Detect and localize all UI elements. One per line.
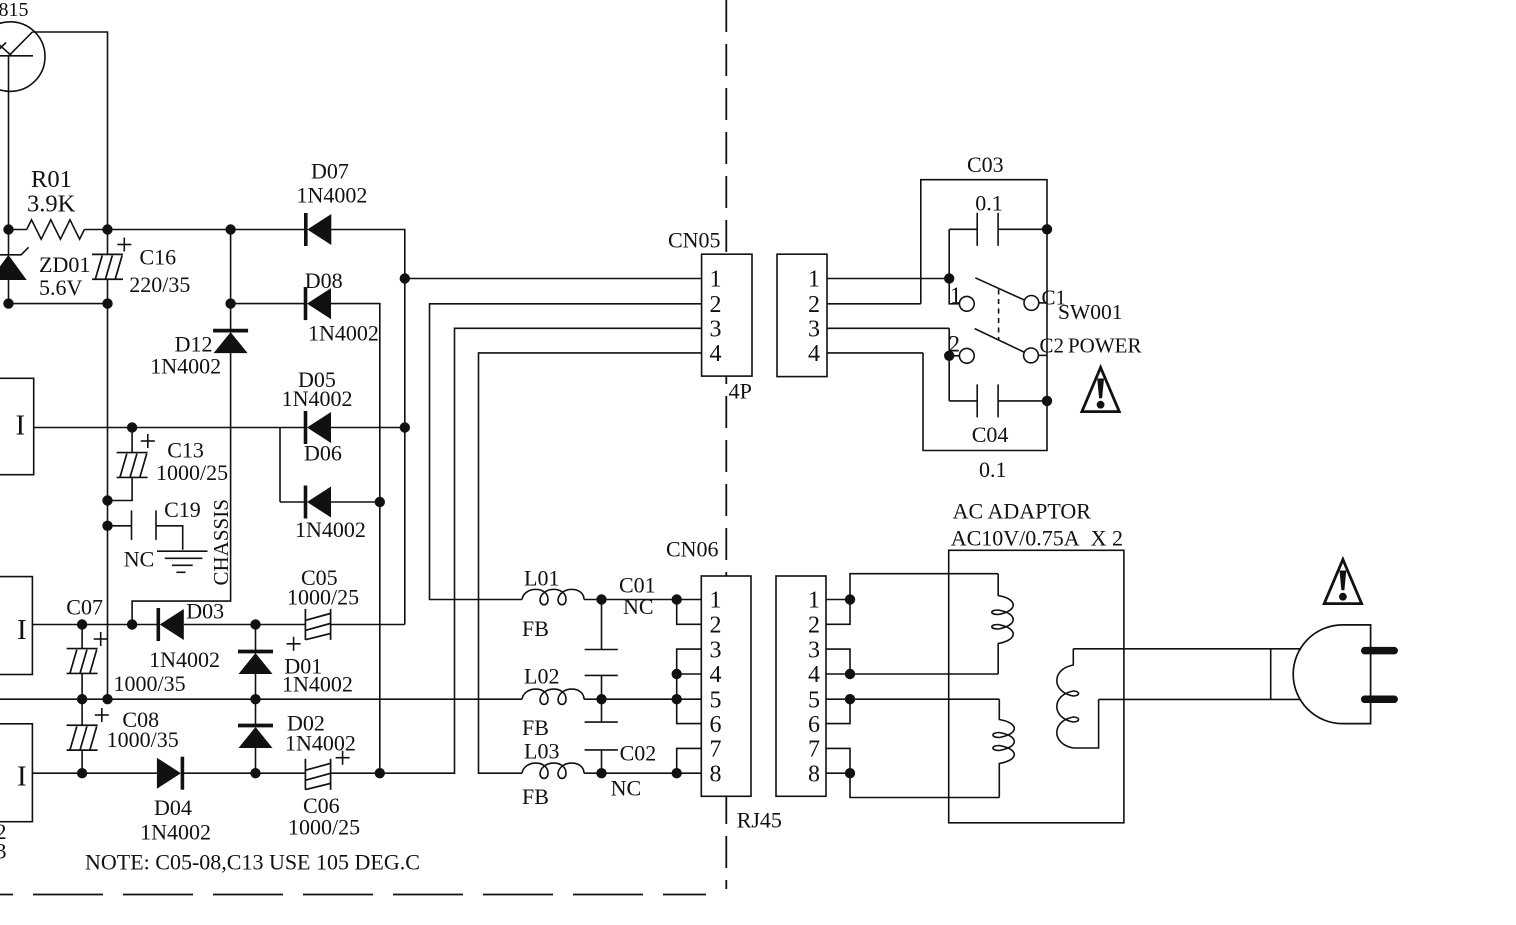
node J27 — [596, 768, 606, 778]
node J22 — [596, 594, 606, 604]
wire wire ZD01 to C16 bottom — [9, 303, 108, 305]
svg-text:3.9K: 3.9K — [27, 191, 76, 218]
svg-text:CN06: CN06 — [666, 537, 719, 562]
wire D06 left lead — [280, 501, 306, 503]
svg-text:1: 1 — [808, 588, 820, 614]
wire D01 bottom lead — [255, 674, 257, 699]
svg-text:1N4002: 1N4002 — [282, 672, 353, 697]
svg-text:5.6V: 5.6V — [39, 275, 83, 300]
wire switch assembly outline SW001 — [921, 180, 1047, 451]
wire C07 top lead — [81, 625, 83, 649]
switch SW001 contact C1 circle — [1024, 296, 1039, 311]
svg-text:I: I — [17, 614, 27, 646]
wire P2 pins1-2 jumper and riser to T1 primary — [826, 574, 998, 625]
wire C06 to node x=379.8 — [331, 772, 380, 774]
diode D01 1N4002 — [238, 652, 273, 675]
wire D08 row from node to corner x=379.8 — [231, 303, 306, 305]
node J2 — [102, 224, 112, 234]
diode D06 1N4002 — [306, 486, 332, 519]
wire D03 to C05 — [184, 624, 306, 626]
wire Q1 collector to C16 top — [32, 32, 107, 230]
wire CN06 pins7-8 jumper — [677, 748, 702, 773]
svg-text:R01: R01 — [31, 166, 72, 193]
connector P2 (mating RJ45) box — [776, 576, 826, 796]
wire D02 bottom lead — [255, 748, 257, 773]
wire C04 left lead — [949, 400, 977, 402]
node J1 — [3, 224, 13, 234]
capacitor C16 220/35 (polarized) — [92, 254, 123, 279]
diode D02 1N4002 — [238, 726, 273, 749]
node J7 — [400, 273, 410, 283]
wire C2 to frame stub — [1038, 354, 1047, 356]
svg-text:NC: NC — [611, 776, 642, 801]
node J21 — [375, 768, 385, 778]
svg-text:3: 3 — [808, 637, 820, 663]
wire D05 to node x=404.8 — [331, 427, 405, 429]
wire C19 left lead — [108, 525, 132, 527]
plus sign C06 — [336, 751, 350, 765]
svg-text:4: 4 — [808, 341, 820, 367]
svg-text:6: 6 — [808, 712, 820, 738]
wire D12 branch vertical from rail — [230, 230, 232, 331]
svg-text:1: 1 — [710, 267, 722, 293]
wire C03 left lead — [949, 228, 977, 230]
node J36 — [1042, 396, 1052, 406]
svg-text:2: 2 — [808, 292, 820, 318]
wire C07 bottom lead — [81, 673, 83, 699]
plus sign C16 — [117, 238, 131, 252]
svg-text:D06: D06 — [304, 441, 342, 466]
wire L03 out to CN06 pin8 — [584, 772, 701, 774]
node J26 — [672, 694, 682, 704]
wire switch pole2 input vertical — [948, 328, 950, 401]
svg-text:L02: L02 — [524, 664, 559, 689]
node J13 — [77, 619, 87, 629]
svg-text:C03: C03 — [967, 152, 1004, 177]
svg-text:C04: C04 — [972, 422, 1009, 447]
wire pole2 contact stub — [949, 355, 959, 357]
svg-text:NC: NC — [124, 547, 155, 572]
svg-text:1: 1 — [710, 588, 722, 614]
winding box III (bottom, cut off) — [0, 724, 32, 822]
switch SW001 pole 2 contact circle — [959, 348, 974, 363]
wire bottom rail from winding III to D04 — [32, 772, 156, 774]
wire plug connector P1 pin3 wire to switch — [827, 327, 949, 329]
svg-text:1N4002: 1N4002 — [285, 731, 356, 756]
inductor L03 FB — [522, 763, 584, 778]
node J23 — [672, 594, 682, 604]
transistor Q1 (2SC... 815, cut off at edge) — [0, 22, 45, 92]
svg-text:C16: C16 — [140, 245, 177, 270]
winding box I (top, cut off) — [0, 378, 34, 474]
wire CN05 pin1 wire — [405, 278, 702, 280]
wire plug connector P1 pin4 wire to switch frame — [827, 352, 923, 354]
node J35 — [1042, 224, 1052, 234]
wire CN05 pin3 wire down to bottom rail — [380, 328, 702, 773]
transformer T1 primary winding — [992, 574, 1013, 674]
node J20 — [250, 768, 260, 778]
node J31 — [845, 694, 855, 704]
wire D04 to C06 — [182, 772, 305, 774]
node J11 — [102, 521, 112, 531]
wire P2 pin4 wire to T1 primary bottom — [826, 673, 998, 675]
wire C03 right lead to frame — [998, 228, 1047, 230]
wire C1 to frame stub — [1039, 302, 1047, 304]
svg-text:1N4002: 1N4002 — [282, 386, 353, 411]
node J9 — [127, 422, 137, 432]
zener diode ZD01 5.6V — [0, 247, 29, 279]
wire D06 right lead to x=379.8 — [331, 501, 380, 503]
svg-text:4P: 4P — [729, 379, 752, 404]
AC plug prong bottom — [1365, 696, 1395, 704]
wire C04 right lead to frame — [998, 400, 1047, 402]
AC plug body — [1293, 625, 1370, 724]
node J10 — [102, 495, 112, 505]
node J29 — [845, 594, 855, 604]
wire C13 top lead — [131, 428, 133, 453]
svg-text:FB: FB — [522, 715, 549, 740]
wire C16 top lead — [107, 230, 109, 255]
wire CN05 pin4 wire down to L03 — [479, 353, 702, 773]
node J4 — [3, 298, 13, 308]
wire P2 pins5-6 jumper — [826, 699, 850, 723]
wire ZD01 top lead — [8, 230, 10, 255]
node J25 — [672, 669, 682, 679]
node J3 — [225, 224, 235, 234]
wire D12 down and over to D03 node — [132, 353, 231, 624]
switch SW001 pole 1 lever — [975, 278, 1024, 300]
connector CN05 4P box — [702, 254, 752, 376]
wire CN06 pins3-6 jumper — [677, 649, 702, 724]
svg-text:3: 3 — [710, 637, 722, 663]
switch SW001 pole 2 lever — [975, 329, 1024, 352]
wire mid rail y=699.2 — [0, 698, 522, 700]
svg-text:0.1: 0.1 — [975, 191, 1003, 216]
svg-text:4: 4 — [710, 662, 722, 688]
wire P2 pin1 stub — [826, 599, 850, 601]
wire CN06 pin4 stub — [677, 673, 702, 675]
wire row y=427.5 from winding I to D05 — [34, 427, 306, 429]
wire C02 top lead — [601, 699, 603, 722]
svg-text:C02: C02 — [620, 741, 657, 766]
svg-text:NC: NC — [623, 594, 654, 619]
capacitor C03 0.1 — [977, 213, 998, 246]
wire P2 pins7-8 jumper and drop to T2 primary bottom — [826, 748, 999, 797]
wire mid rail right of L02 — [584, 698, 701, 700]
node J33 — [944, 273, 954, 283]
node J8 — [400, 422, 410, 432]
svg-text:C2: C2 — [1040, 334, 1065, 358]
warning triangle near switch — [1082, 368, 1119, 412]
svg-text:1N4002: 1N4002 — [149, 647, 220, 672]
svg-text:1000/35: 1000/35 — [114, 671, 186, 696]
svg-text:1: 1 — [950, 283, 962, 308]
wire plug connector P1 pin1 wire to switch — [827, 278, 949, 280]
transformer T2 primary winding — [993, 699, 1014, 797]
svg-text:1N4002: 1N4002 — [297, 183, 368, 208]
svg-text:I: I — [17, 761, 27, 793]
switch SW001 pole 1 contact circle — [959, 296, 974, 311]
wire P2 pin8 stub — [826, 772, 850, 774]
svg-text:3: 3 — [0, 839, 7, 864]
capacitor C13 1000/25 (polarized) — [117, 453, 148, 478]
svg-text:POWER: POWER — [1068, 334, 1142, 358]
svg-text:RJ45: RJ45 — [737, 808, 782, 833]
wire row y=624.5 from winding II to D03 — [32, 624, 158, 626]
svg-text:1N4002: 1N4002 — [140, 820, 211, 845]
node J18 — [250, 694, 260, 704]
capacitor C06 1000/25 (polarized) — [305, 759, 330, 790]
wire CN06 pins1-2 jumper — [677, 600, 702, 625]
wire switch pole1 input vertical — [949, 229, 959, 303]
wire Q1 emitter down to R01 node — [8, 56, 10, 230]
wire dashed enclosure boundary vertical — [725, 0, 727, 889]
wire dashed enclosure boundary horizontal — [0, 894, 706, 896]
transformer secondary winding — [1057, 649, 1099, 748]
svg-text:8: 8 — [808, 761, 820, 787]
svg-text:2: 2 — [710, 613, 722, 639]
node J6 — [225, 298, 235, 308]
wire C01 top lead — [601, 600, 603, 650]
svg-text:5: 5 — [808, 687, 820, 713]
svg-text:1000/25: 1000/25 — [156, 460, 228, 485]
svg-text:SW001: SW001 — [1058, 300, 1123, 324]
capacitor C05 1000/25 (polarized) — [305, 609, 330, 640]
svg-text:C13: C13 — [167, 438, 204, 463]
svg-text:1N4002: 1N4002 — [295, 517, 366, 542]
svg-text:C19: C19 — [164, 497, 201, 522]
svg-text:AC ADAPTOR: AC ADAPTOR — [953, 499, 1092, 524]
svg-text:7: 7 — [710, 737, 722, 763]
wire CN05 pin2 wire down to L01 — [430, 304, 702, 600]
wire plug connector P1 pin2 wire to switch frame — [827, 303, 921, 305]
node J34 — [944, 351, 954, 361]
capacitor C01 NC — [585, 650, 618, 676]
wire rail y=229.5 to D07 — [84, 229, 305, 231]
node J12 — [375, 497, 385, 507]
wire adaptor output top wire to plug — [1073, 648, 1320, 650]
inductor L02 FB — [522, 689, 584, 704]
svg-text:1000/25: 1000/25 — [287, 585, 359, 610]
svg-text:1N4002: 1N4002 — [150, 354, 221, 379]
AC adaptor box — [949, 550, 1124, 823]
wire D08 to vertical x=379.8 down to bottom rail — [331, 304, 380, 774]
svg-text:2: 2 — [949, 332, 961, 357]
svg-text:3: 3 — [710, 317, 722, 343]
svg-text:7: 7 — [808, 737, 820, 763]
diode D08 1N4002 — [306, 287, 332, 320]
svg-text:1N4002: 1N4002 — [308, 321, 379, 346]
wire D01 top lead — [255, 625, 257, 652]
wire D02 top lead — [255, 699, 257, 725]
wire ZD01 bottom lead — [8, 279, 10, 303]
svg-text:8: 8 — [710, 761, 722, 787]
node J32 — [845, 768, 855, 778]
svg-text:C07: C07 — [66, 595, 103, 620]
svg-text:AC10V/0.75A X 2: AC10V/0.75A X 2 — [951, 526, 1123, 551]
plus sign C05 — [287, 637, 301, 651]
capacitor C04 0.1 — [977, 384, 998, 417]
wire D06 branch up to D05 row — [279, 428, 281, 503]
capacitor C02 NC — [585, 722, 618, 750]
ground chassis — [157, 551, 208, 572]
svg-text:CN05: CN05 — [668, 228, 721, 253]
capacitor C07 1000/35 (polarized) — [67, 649, 98, 674]
node J17 — [102, 694, 112, 704]
svg-text:ZD01: ZD01 — [39, 252, 90, 277]
capacitor C08 1000/35 (polarized) — [67, 725, 98, 750]
svg-text:L01: L01 — [524, 566, 559, 591]
svg-text:2: 2 — [710, 292, 722, 318]
wire C13 bottom lead to x=107.5 — [108, 478, 133, 501]
node J30 — [845, 669, 855, 679]
svg-text:815: 815 — [0, 0, 29, 21]
wire cord tick — [1270, 649, 1272, 700]
plus sign C07 — [94, 632, 108, 646]
wire C08 top lead — [81, 699, 83, 725]
svg-text:2: 2 — [808, 613, 820, 639]
wire P2 pin5 wire to T2 primary top — [826, 698, 999, 700]
switch SW001 contact C2 circle — [1024, 348, 1039, 363]
svg-text:4: 4 — [710, 341, 722, 367]
inductor L01 FB — [522, 589, 584, 604]
svg-text:6: 6 — [710, 712, 722, 738]
resistor R01 — [27, 220, 85, 239]
diode D12 1N4002 — [213, 331, 248, 354]
svg-text:220/35: 220/35 — [129, 272, 190, 297]
plus sign C08 — [95, 708, 109, 722]
node J5 — [102, 298, 112, 308]
capacitor C19 NC — [132, 510, 157, 540]
svg-text:0.1: 0.1 — [979, 457, 1007, 482]
svg-text:FB: FB — [522, 784, 549, 809]
wire C01 bottom lead — [601, 675, 603, 699]
svg-text:1000/35: 1000/35 — [107, 727, 179, 752]
wire C08 bottom lead — [81, 750, 83, 773]
svg-text:D04: D04 — [154, 795, 192, 820]
wire P2 pins3-4 jumper — [826, 649, 850, 674]
svg-text:I: I — [16, 410, 26, 442]
diode D03 1N4002 — [158, 608, 184, 641]
node J16 — [77, 694, 87, 704]
winding box II (middle, cut off) — [0, 577, 32, 675]
diode D07 1N4002 — [306, 213, 332, 246]
svg-text:CHASSIS: CHASSIS — [209, 499, 233, 585]
diode D04 1N4002 — [157, 757, 183, 790]
svg-text:D07: D07 — [311, 159, 349, 184]
AC plug prong top — [1365, 647, 1395, 655]
svg-text:1: 1 — [808, 267, 820, 293]
warning triangle near plug — [1324, 560, 1361, 604]
svg-text:FB: FB — [522, 616, 549, 641]
wire C02 bottom lead — [601, 750, 603, 773]
node J19 — [77, 768, 87, 778]
plus sign C13 — [141, 434, 155, 448]
svg-text:D08: D08 — [305, 268, 343, 293]
connector P1 (mating 4P) box — [777, 254, 827, 376]
wire rail y=229.5 left segment — [9, 229, 27, 231]
wire C16 bottom lead down to mid rail — [107, 279, 109, 699]
wire adaptor output bottom wire to plug — [1099, 698, 1320, 700]
connector CN06 RJ45 box — [701, 576, 751, 796]
node J24 — [596, 694, 606, 704]
node J14 — [127, 619, 137, 629]
wire rail after D07 and corner down x=404.8 — [331, 230, 405, 625]
svg-text:NOTE: C05-08,C13 USE 105 DEG.C: NOTE: C05-08,C13 USE 105 DEG.C — [85, 850, 420, 875]
wire switch mechanical link (dashed) — [998, 290, 1000, 340]
svg-text:3: 3 — [808, 317, 820, 343]
wire L01 out to CN06 pin1 — [584, 599, 701, 601]
svg-text:L03: L03 — [524, 739, 559, 764]
wire C19 right lead to ground — [156, 526, 183, 550]
svg-text:D03: D03 — [186, 599, 224, 624]
wire C05 to corner x=404.8 — [331, 624, 405, 626]
node J28 — [672, 768, 682, 778]
svg-text:1000/25: 1000/25 — [288, 815, 360, 840]
svg-text:4: 4 — [808, 662, 820, 688]
diode D05 1N4002 — [306, 411, 332, 444]
svg-text:5: 5 — [710, 687, 722, 713]
node J15 — [250, 619, 260, 629]
